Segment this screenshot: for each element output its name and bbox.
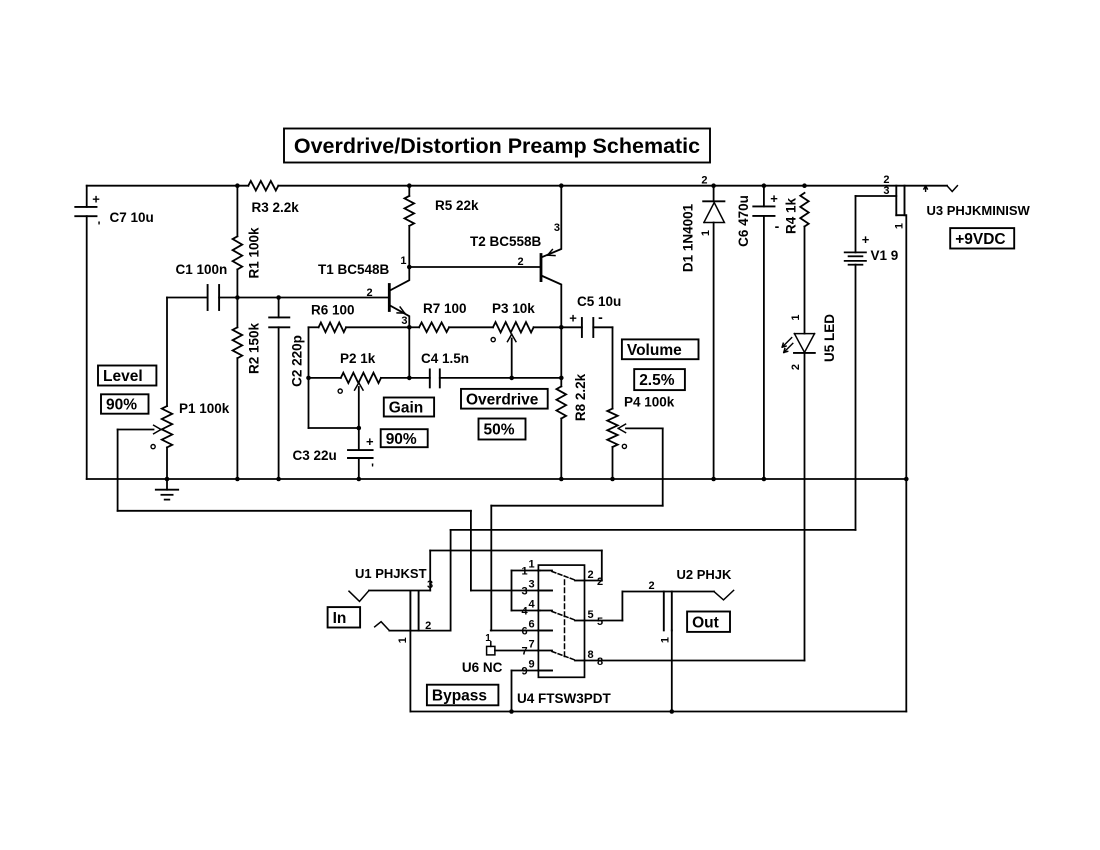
wire U1 ring row	[389, 630, 450, 632]
wire U4 pin2 lead	[585, 580, 602, 582]
title box	[284, 129, 710, 163]
wire battery plus lead	[856, 196, 897, 252]
svg-text:V1 9: V1 9	[871, 248, 899, 263]
svg-text:1: 1	[700, 230, 712, 236]
terminal mark P3	[491, 338, 495, 342]
svg-text:1: 1	[521, 566, 527, 578]
transistor T2 emitter	[542, 186, 561, 257]
wire U4 pins1-4 strap	[512, 571, 541, 611]
svg-text:D1 1N4001: D1 1N4001	[681, 203, 696, 272]
wire T1 base row	[219, 297, 389, 299]
pin 4 U4 stub	[538, 610, 552, 612]
svg-text:2: 2	[587, 569, 593, 581]
wire C4 leads	[409, 377, 511, 379]
pin 2 U4 number	[587, 569, 603, 588]
wiper P3	[507, 334, 516, 378]
wire R5 top lead	[408, 186, 410, 196]
label Out box	[687, 612, 730, 632]
pin 3 T1	[401, 315, 407, 327]
svg-text:1: 1	[528, 559, 534, 571]
pin 2 U3	[883, 174, 889, 186]
pin 1 U1	[397, 637, 409, 643]
label R4 value	[783, 197, 798, 234]
svg-text:1: 1	[790, 314, 802, 320]
node C3 ground junction	[357, 477, 362, 482]
switch U4 pole 2 lever	[552, 612, 575, 621]
pin 3 U4 stub	[538, 590, 552, 592]
capacitor C6	[753, 191, 779, 234]
svg-text:U4 FTSW3PDT: U4 FTSW3PDT	[517, 691, 612, 706]
svg-text:2: 2	[648, 580, 654, 592]
wire C3 bottom lead	[358, 458, 360, 479]
wire U1 tip to switch pin2	[430, 551, 602, 591]
pin 1 T1	[400, 255, 406, 267]
wire left edge	[86, 186, 88, 479]
svg-text:R8 2.2k: R8 2.2k	[573, 373, 588, 421]
label C2 value	[289, 335, 304, 387]
jack U2 body	[664, 592, 672, 631]
svg-text:3: 3	[401, 315, 407, 327]
wire R6 right lead	[346, 326, 409, 328]
wire bottom rail	[410, 479, 906, 712]
pin 2 D1	[701, 175, 707, 187]
svg-text:T2 BC558B: T2 BC558B	[470, 234, 542, 249]
contact tick U3	[924, 186, 928, 191]
svg-text:1: 1	[400, 255, 406, 267]
pin 1 U2	[660, 637, 672, 643]
label Bypass box	[427, 685, 499, 706]
label P2 value	[340, 351, 376, 366]
terminal mark P2	[338, 389, 342, 393]
node C6 ground junction	[762, 477, 767, 482]
resistor R8	[557, 386, 567, 418]
pin 6 U4 stub	[538, 630, 552, 632]
wire P1 wiper net	[118, 430, 471, 591]
label R7 value	[423, 301, 467, 316]
wire T2 column Y327-Y378	[560, 327, 562, 378]
terminal mark P4	[622, 444, 626, 448]
label C3 value	[293, 448, 337, 463]
svg-text:2: 2	[425, 620, 431, 632]
jack U1 ring contact	[375, 622, 390, 631]
node T1 emitter junction	[407, 325, 412, 330]
label Level box	[98, 366, 156, 386]
label R6 value	[311, 303, 355, 318]
svg-text:U6 NC: U6 NC	[462, 660, 503, 675]
pin 5 U4 number	[587, 609, 603, 628]
capacitor C7	[75, 191, 100, 233]
pin 1 U4 number	[521, 559, 534, 578]
wire U4 pin6 lead	[491, 630, 552, 632]
wire P3 wiper row to R8	[512, 377, 562, 379]
diode D1	[703, 201, 724, 222]
capacitor C1	[208, 285, 220, 310]
wire P1 top lead	[166, 298, 168, 407]
node P1 ground junction	[165, 477, 170, 482]
wire +9V top rail	[87, 185, 947, 187]
wire R1 bottom lead	[236, 269, 238, 297]
capacitor C4	[430, 369, 440, 387]
wire R5 bottom lead	[408, 226, 410, 267]
node P2 left junction	[306, 376, 311, 381]
resistor R2	[233, 327, 243, 358]
svg-text:+: +	[770, 191, 778, 206]
wire U2 sleeve down (crosses pin8 net)	[671, 630, 673, 711]
wire C2 top lead	[278, 298, 280, 318]
transistor T1 collector	[391, 267, 410, 290]
wire D1 top lead	[713, 186, 715, 202]
label T2 name	[470, 234, 542, 249]
svg-text:7: 7	[528, 639, 534, 651]
node U2 sleeve ground junction	[670, 709, 675, 714]
label U5 name	[822, 314, 837, 362]
label P4 value	[624, 395, 675, 410]
wiper P2	[355, 383, 364, 428]
wire U1 sleeve down	[409, 631, 411, 712]
svg-text:+: +	[366, 434, 374, 449]
svg-text:7: 7	[521, 646, 527, 658]
svg-text:1: 1	[485, 633, 491, 644]
switch U4 body	[538, 565, 584, 677]
LED U5	[782, 334, 815, 353]
svg-text:C5 10u: C5 10u	[577, 294, 621, 309]
pin 4 U4 number	[521, 599, 535, 618]
pin 7 U4 stub	[538, 650, 552, 652]
svg-text:T1 BC548B: T1 BC548B	[318, 262, 390, 277]
svg-text:2: 2	[366, 287, 372, 299]
label C5 value	[577, 294, 621, 309]
svg-text:9: 9	[528, 659, 534, 671]
svg-text:Level: Level	[103, 368, 143, 385]
svg-text:9: 9	[521, 666, 527, 678]
svg-text:R4 1k: R4 1k	[783, 197, 798, 234]
svg-text:4: 4	[528, 599, 535, 611]
label U1 name	[355, 566, 427, 581]
pin 2 U2	[648, 580, 654, 592]
node C2 ground junction	[276, 477, 281, 482]
pin 1 U3	[894, 223, 906, 229]
label P1 value	[179, 401, 230, 416]
svg-text:3: 3	[521, 586, 527, 598]
wire R4-LED lead	[804, 227, 806, 334]
svg-text:R3 2.2k: R3 2.2k	[252, 200, 300, 215]
battery V1	[845, 232, 870, 265]
wire P4 wiper net	[491, 428, 662, 630]
label C6 value	[736, 195, 751, 247]
label In box	[328, 607, 361, 627]
svg-text:6: 6	[521, 626, 527, 638]
wire C1 left lead	[167, 297, 208, 299]
pin 2 T1	[366, 287, 372, 299]
node P3 wiper junction	[509, 376, 514, 381]
pin 3 U3	[883, 185, 889, 197]
wire D1 bottom lead	[713, 223, 715, 480]
potentiometer P1	[162, 406, 172, 447]
svg-text:2: 2	[597, 576, 603, 588]
transistor T1 emitter	[391, 306, 410, 328]
wire P2 right lead	[381, 377, 409, 379]
pin 1 U5	[790, 314, 802, 320]
label Level 90% box	[101, 394, 149, 413]
wire P4 top lead	[612, 327, 614, 408]
label +9VDC box	[950, 228, 1014, 248]
svg-text:+9VDC: +9VDC	[955, 231, 1005, 248]
svg-text:Gain: Gain	[389, 400, 423, 417]
switch contact U3	[947, 186, 957, 192]
svg-text:+: +	[862, 232, 870, 247]
svg-text:6: 6	[528, 619, 534, 631]
svg-text:-: -	[598, 309, 603, 325]
label Volume 2.5% box	[634, 369, 685, 390]
pin 3 U4 number	[521, 579, 534, 598]
pin 1 D1	[700, 230, 712, 236]
node P4 ground junction	[610, 477, 615, 482]
svg-text:R5 22k: R5 22k	[435, 198, 479, 213]
svg-text:3: 3	[554, 222, 560, 234]
wire T1 emitter down column	[408, 327, 410, 378]
svg-text:R7 100: R7 100	[423, 301, 467, 316]
capacitor C3	[348, 434, 374, 475]
label R5 value	[435, 198, 479, 213]
switch U4 link	[564, 580, 566, 658]
wire P4 bottom lead	[612, 447, 614, 479]
node C1-R1R2 junction	[235, 295, 240, 300]
wire U1 tip row	[369, 590, 430, 592]
svg-text:8: 8	[597, 656, 603, 668]
label Overdrive box	[461, 389, 548, 409]
svg-text:5: 5	[597, 616, 603, 628]
svg-text:+: +	[92, 191, 100, 206]
label R2 value	[247, 322, 262, 374]
pin 9 U4 stub	[538, 670, 552, 672]
wire R1 top lead	[236, 186, 238, 237]
wire R7 leads	[409, 326, 493, 328]
node U3 ground junction	[904, 477, 909, 482]
wire P2 left lead	[309, 377, 341, 379]
node C2 top junction	[276, 295, 281, 300]
ground symbol	[156, 479, 178, 500]
resistor R4	[800, 193, 808, 227]
svg-text:1: 1	[397, 637, 409, 643]
svg-text:4: 4	[521, 606, 528, 618]
svg-text:Overdrive: Overdrive	[466, 391, 539, 408]
label C1 value	[176, 262, 228, 277]
wire P3 to C5	[534, 326, 582, 328]
label R8 value	[573, 373, 588, 421]
svg-text:C4 1.5n: C4 1.5n	[421, 351, 469, 366]
wire T1 collector net to T2 base	[409, 266, 540, 268]
wire LED cathode down (crosses ground rail)	[804, 353, 806, 661]
switch U4 pole 3 lever	[552, 652, 575, 661]
svg-text:2: 2	[517, 256, 523, 268]
transistor T1 bar	[388, 285, 391, 311]
svg-text:3: 3	[883, 185, 889, 197]
svg-text:C1 100n: C1 100n	[176, 262, 228, 277]
label Gain box	[384, 398, 434, 417]
connector U3	[896, 186, 904, 216]
svg-text:U1 PHJKST: U1 PHJKST	[355, 566, 427, 581]
capacitor C5	[569, 309, 603, 337]
jack U2 tip contact	[714, 590, 734, 600]
jack U1 body	[410, 591, 418, 631]
wire U4 pin3 lead	[471, 590, 552, 592]
svg-text:3: 3	[427, 579, 433, 591]
pin 3 U1	[427, 579, 433, 591]
wire C6 bottom lead	[763, 216, 765, 479]
svg-text:2: 2	[701, 175, 707, 187]
svg-text:C3 22u: C3 22u	[293, 448, 337, 463]
svg-text:90%: 90%	[386, 431, 417, 448]
potentiometer P3	[493, 322, 534, 332]
svg-text:U3 PHJKMINISW: U3 PHJKMINISW	[927, 203, 1031, 218]
svg-text:R2 150k: R2 150k	[247, 322, 262, 374]
node P2 wiper-C3 junction	[357, 426, 362, 431]
label R1 value	[246, 227, 261, 279]
resistor R5	[405, 196, 415, 226]
wiper P1	[118, 425, 161, 434]
resistor R6	[319, 323, 347, 333]
pin 2 U1	[425, 620, 431, 632]
terminal mark P1	[151, 445, 155, 449]
pin 1 U4 stub	[538, 570, 552, 572]
label D1 value	[681, 203, 696, 272]
svg-text:1: 1	[660, 637, 672, 643]
capacitor C2	[269, 317, 289, 327]
transistor T2 bar	[540, 255, 543, 281]
svg-text:P1 100k: P1 100k	[179, 401, 230, 416]
svg-text:+: +	[569, 311, 577, 326]
pin 8 U4 stub	[575, 660, 585, 662]
node rail-R1 junction	[235, 183, 240, 188]
svg-text:U5 LED: U5 LED	[822, 314, 837, 362]
pin 1 U6	[485, 633, 491, 644]
svg-text:P3 10k: P3 10k	[492, 301, 535, 316]
resistor R1	[233, 236, 243, 269]
wire R8 leads	[560, 378, 562, 479]
svg-text:U2 PHJK: U2 PHJK	[677, 567, 733, 582]
terminal U6 NC	[487, 642, 495, 655]
wire P1 bottom lead	[166, 447, 168, 479]
wire C2 bottom lead	[278, 327, 280, 479]
wire R2 leads	[236, 298, 238, 480]
svg-text:5: 5	[587, 609, 593, 621]
wire R6-P2 left column	[309, 327, 359, 428]
svg-text:Volume: Volume	[627, 342, 682, 359]
wire U6 to pin7	[495, 650, 539, 652]
svg-text:Out: Out	[692, 614, 719, 631]
pin 2 T2	[517, 256, 523, 268]
wire U3 pin1 down	[905, 215, 907, 479]
potentiometer P4	[607, 409, 617, 447]
svg-text:Bypass: Bypass	[432, 688, 487, 705]
node U4 pin9 ground junction	[509, 709, 514, 714]
pin 6 U4 number	[521, 619, 534, 638]
svg-text:P2 1k: P2 1k	[340, 351, 376, 366]
label C7 value	[110, 210, 154, 225]
wire C5 right lead	[593, 326, 612, 328]
pin 5 U4 stub	[575, 620, 585, 622]
pin 9 U4 number	[521, 659, 534, 678]
svg-text:2: 2	[790, 364, 802, 370]
node D1 ground junction	[711, 477, 716, 482]
label U4 name	[517, 691, 612, 706]
node rail-T2 junction	[559, 183, 564, 188]
label T1 name	[318, 262, 390, 277]
svg-text:': '	[98, 219, 101, 233]
wire U4 pin5 to U2	[585, 592, 623, 621]
node R8 ground junction	[559, 477, 564, 482]
wiper P4	[618, 424, 663, 433]
svg-text:C7 10u: C7 10u	[110, 210, 154, 225]
svg-text:1: 1	[894, 223, 906, 229]
label U3 name	[927, 203, 1031, 218]
svg-text:2.5%: 2.5%	[639, 372, 675, 389]
label C4 value	[421, 351, 469, 366]
pin 8 U4 number	[587, 649, 603, 668]
label P3 value	[492, 301, 535, 316]
svg-text:3: 3	[528, 579, 534, 591]
wire battery minus down (crosses ground rail)	[855, 265, 857, 530]
label Overdrive 50% box	[479, 419, 526, 440]
svg-text:P4 100k: P4 100k	[624, 395, 675, 410]
node R8 top junction	[559, 376, 564, 381]
svg-text:Overdrive/Distortion Preamp Sc: Overdrive/Distortion Preamp Schematic	[294, 134, 700, 158]
svg-text:C2 220p: C2 220p	[289, 335, 304, 387]
node rail-C6 junction	[762, 183, 767, 188]
node T2 collector row junction	[559, 325, 564, 330]
wire C3 top lead	[358, 428, 360, 450]
pin 3 T2	[554, 222, 560, 234]
label U6 name	[462, 660, 503, 675]
wire U4 pin8 to LED	[585, 660, 805, 662]
node rail-R4 junction	[802, 183, 807, 188]
node R2 ground junction	[235, 477, 240, 482]
label R3 value	[252, 200, 300, 215]
wire U2 tip row	[622, 591, 714, 593]
node rail-D1 junction	[711, 183, 716, 188]
svg-text:R6 100: R6 100	[311, 303, 355, 318]
potentiometer P2	[341, 373, 381, 383]
pin 2 U5	[790, 364, 802, 370]
svg-text:8: 8	[587, 649, 593, 661]
svg-text:-: -	[775, 218, 780, 234]
switch U4 pole 1 lever	[552, 572, 575, 581]
pin 2 U4 stub	[575, 580, 585, 582]
svg-text:In: In	[333, 610, 347, 627]
wire U4 pin9 to ground	[512, 671, 553, 712]
svg-text:': '	[371, 461, 374, 475]
label V1 value	[871, 248, 899, 263]
resistor R7	[419, 323, 449, 333]
wire R6 left lead	[309, 326, 319, 328]
label Volume box	[622, 339, 699, 359]
svg-text:50%: 50%	[484, 422, 515, 439]
wire C6 top lead	[763, 186, 765, 207]
node T1 collector junction	[407, 265, 412, 270]
node T1 emitter to P2 junction	[407, 376, 412, 381]
pin 7 U4 number	[521, 639, 534, 658]
jack U1 tip contact	[349, 591, 369, 602]
svg-text:C6 470u: C6 470u	[736, 195, 751, 247]
node rail-R5 junction	[407, 183, 412, 188]
label Gain 90% box	[381, 429, 428, 448]
wire ground rail	[87, 478, 907, 480]
resistor R3	[248, 181, 278, 191]
label U2 name	[677, 567, 733, 582]
transistor T2 collector	[542, 276, 561, 327]
svg-text:90%: 90%	[106, 397, 137, 414]
svg-text:R1 100k: R1 100k	[246, 227, 261, 279]
